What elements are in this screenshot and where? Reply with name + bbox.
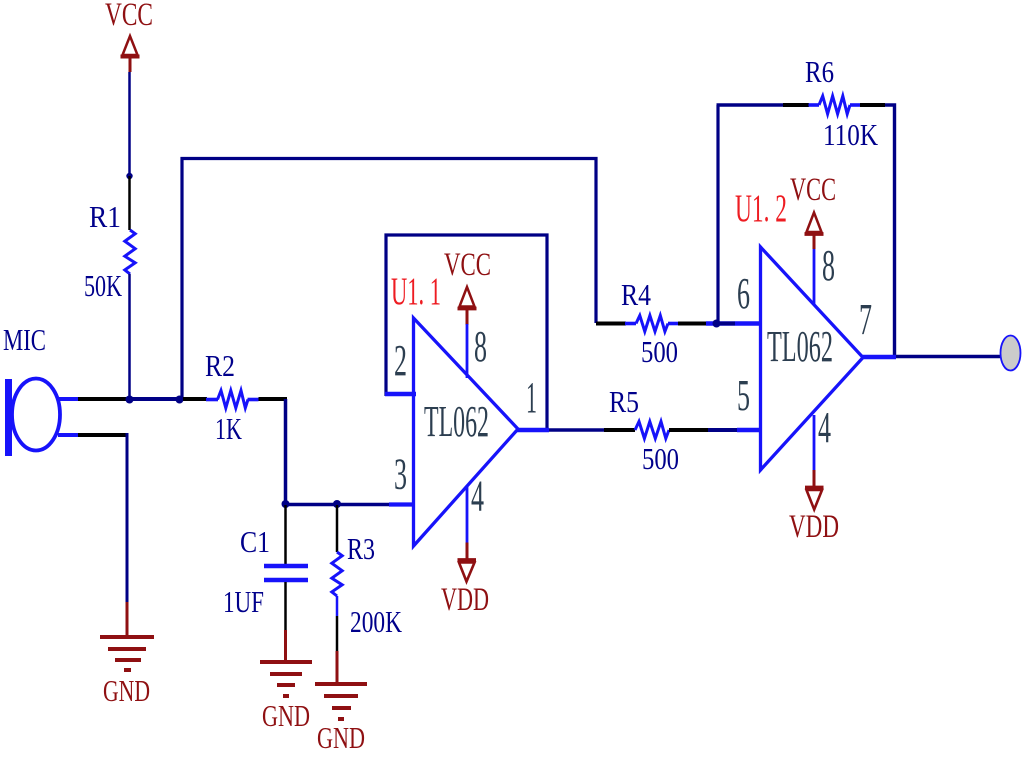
capacitor C1 — [264, 566, 308, 580]
node dot R4/feedback junction — [713, 320, 721, 328]
svg-text:VCC: VCC — [444, 247, 491, 283]
svg-text:4: 4 — [471, 472, 484, 521]
wire R3 GND (dark red) — [336, 651, 339, 684]
wire R2 right (blue) — [248, 398, 259, 402]
wire to R5 (black) — [604, 428, 635, 432]
wire feedback corner (navy) — [885, 105, 895, 357]
wire C1 GND (dark red) — [284, 630, 287, 662]
wire mic bottom (black) — [78, 433, 129, 437]
wire pin4 U1.2 (blue) — [813, 415, 816, 470]
wire pin5 stub (blue) — [737, 428, 762, 433]
wire to GND (dark red) — [126, 602, 129, 637]
VCC power symbol above U1.1 — [458, 287, 477, 325]
node dot at R1 junction — [126, 396, 134, 404]
resistor R6 — [819, 96, 850, 114]
wire feedback top (navy) — [717, 103, 784, 106]
resistor R5 — [635, 422, 669, 439]
svg-text:U1. 1: U1. 1 — [391, 270, 441, 313]
wire node to pin6 (blue) — [706, 321, 762, 326]
wire R3 (blue) — [336, 596, 339, 616]
wire pin8 U1.2 (blue) — [813, 249, 816, 304]
svg-text:R6: R6 — [805, 54, 834, 89]
svg-text:VCC: VCC — [790, 172, 836, 208]
VDD power symbol below U1.1 — [458, 560, 477, 582]
svg-text:3: 3 — [394, 450, 407, 499]
microphone MIC symbol — [5, 379, 60, 457]
wire pin3 stub (blue) — [389, 502, 415, 506]
wire R6 left lead (blue) — [809, 103, 820, 107]
node dot on VCC wire — [126, 173, 132, 179]
svg-text:1UF: 1UF — [223, 584, 264, 619]
svg-text:TL062: TL062 — [767, 322, 833, 371]
svg-text:MIC: MIC — [3, 322, 46, 357]
svg-text:8: 8 — [474, 322, 487, 371]
wire R6 right lead (blue) — [850, 103, 860, 107]
svg-text:TL062: TL062 — [424, 397, 489, 446]
svg-text:R2: R2 — [205, 348, 235, 383]
svg-text:VCC: VCC — [105, 0, 153, 33]
svg-text:R4: R4 — [621, 277, 651, 312]
svg-text:2: 2 — [394, 336, 407, 385]
svg-text:7: 7 — [859, 295, 872, 344]
wire C1 to GND (black) — [284, 582, 287, 630]
terminal pad output — [1001, 336, 1021, 371]
ground GND under mic — [100, 637, 154, 670]
wire junction navy piece — [714, 322, 735, 326]
wire R3 to GND (black) — [336, 616, 339, 651]
svg-text:110K: 110K — [823, 117, 878, 152]
wire U1.1 output stub (blue) — [516, 428, 549, 433]
ground GND under C1 — [260, 662, 312, 696]
wire pin8 (blue) — [466, 324, 469, 378]
wire node to pin3 (navy) — [286, 503, 392, 507]
wire pin4 (dark red) — [466, 543, 469, 560]
svg-text:VDD: VDD — [441, 582, 489, 618]
svg-text:R5: R5 — [609, 384, 639, 419]
wire mic bottom down to GND (navy) — [126, 433, 129, 602]
wire R4 left lead (blue) — [625, 322, 636, 326]
wire mic top lead (blue) — [58, 397, 78, 401]
svg-text:500: 500 — [641, 334, 678, 369]
svg-text:1: 1 — [526, 373, 537, 422]
wire pin2 stub (blue) — [385, 392, 416, 397]
svg-text:GND: GND — [262, 698, 310, 733]
wire pin4 (blue) — [466, 487, 469, 543]
wire R1 bottom to mic node — [128, 274, 131, 399]
wire node to node (navy) — [126, 397, 186, 401]
wire R4 right lead (blue) — [668, 322, 678, 326]
wire VCC to R1 — [128, 72, 131, 176]
svg-text:1K: 1K — [215, 411, 242, 446]
svg-text:4: 4 — [818, 403, 831, 452]
wire dot to R1 top (black) — [128, 176, 131, 230]
svg-text:R3: R3 — [347, 531, 375, 566]
wire pin5 (navy) — [708, 428, 737, 432]
ground GND under R3 — [315, 684, 367, 719]
wire output to terminal (navy) — [896, 355, 1002, 359]
svg-text:U1. 2: U1. 2 — [735, 187, 787, 230]
wire to R2 (black) — [183, 397, 207, 401]
node dot R3 junction — [333, 500, 341, 508]
wire output (navy) — [549, 428, 604, 432]
wire R5 to pin5 (black) — [669, 428, 708, 432]
svg-text:GND: GND — [103, 673, 150, 708]
svg-text:5: 5 — [737, 371, 750, 420]
svg-text:200K: 200K — [350, 604, 402, 639]
wire node down to C1 (black) — [284, 505, 287, 564]
svg-text:50K: 50K — [84, 268, 122, 303]
resistor R1 — [125, 230, 135, 274]
wire to R6 (black) — [783, 103, 809, 107]
svg-text:8: 8 — [822, 241, 835, 290]
VCC power symbol top-left — [121, 36, 140, 72]
wire R4 row from feedback corner (black) — [596, 322, 626, 326]
op-amp U1.1 — [414, 318, 519, 546]
VCC power symbol above U1.2 — [805, 213, 824, 250]
svg-text:6: 6 — [737, 269, 750, 318]
resistor R2 — [218, 391, 249, 409]
VDD power symbol below U1.2 — [805, 488, 824, 510]
svg-text:VDD: VDD — [789, 509, 839, 545]
U1.2 feedback wire up — [716, 105, 719, 323]
wire corner down to node (navy) — [284, 399, 288, 504]
svg-text:R1: R1 — [89, 199, 121, 234]
resistor R3 — [332, 552, 342, 596]
svg-text:GND: GND — [317, 720, 365, 755]
node dot input of U1.1 pin3 net — [282, 500, 290, 508]
wire pin4 U1.2 (dark red) — [813, 470, 816, 486]
U1.1 feedback box wire — [386, 235, 547, 432]
feedback wire from input node up and across to R4 — [182, 159, 596, 400]
op-amp U1.2 — [761, 247, 864, 470]
node dot at feedback junction — [176, 396, 184, 404]
wire mic bottom lead (blue) — [58, 433, 78, 437]
resistor R4 — [636, 316, 668, 332]
wire R4 to node (black) — [678, 322, 706, 326]
svg-text:C1: C1 — [240, 524, 270, 559]
wire mic top (black) — [78, 397, 126, 401]
svg-text:500: 500 — [642, 441, 679, 476]
wire U1.2 output stub (blue) — [861, 355, 896, 360]
wire node down to R3 (black) — [336, 505, 339, 552]
wire R6 right (black) — [860, 103, 885, 107]
wire R2 to corner (black) — [259, 397, 288, 401]
